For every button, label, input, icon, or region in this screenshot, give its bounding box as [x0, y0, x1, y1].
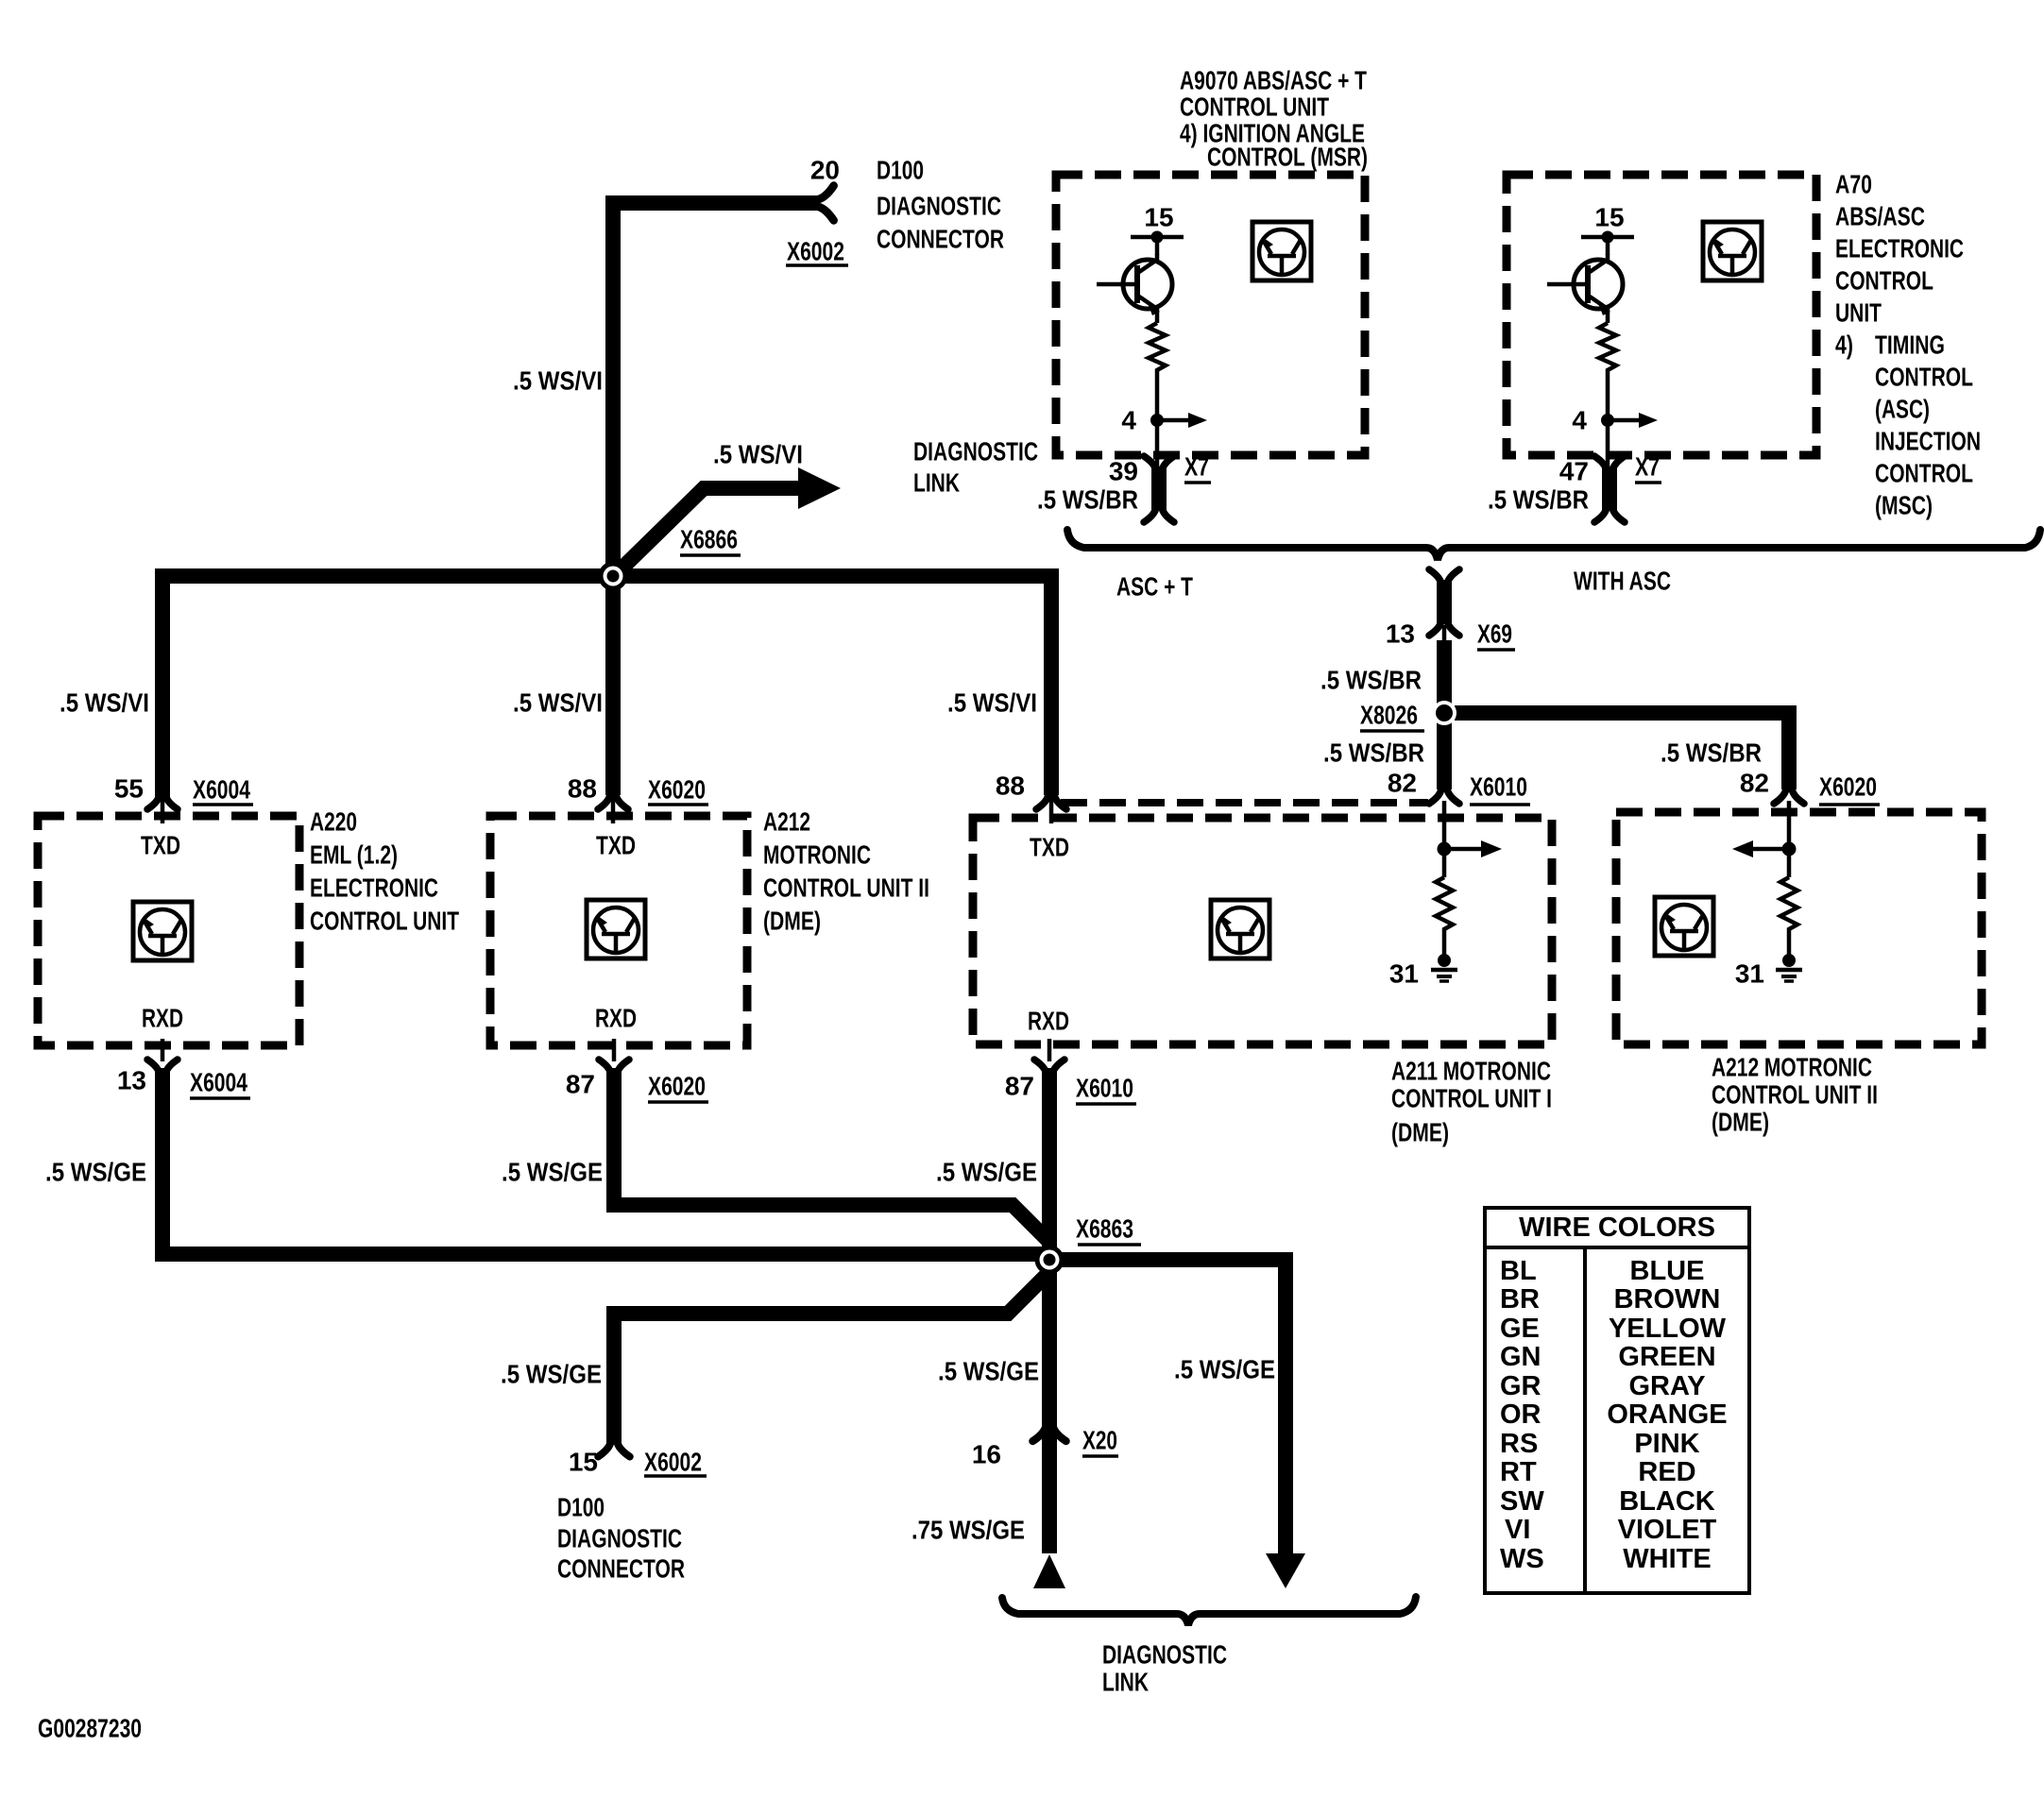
svg-text:VI: VI: [1505, 1515, 1530, 1545]
svg-text:15: 15: [1594, 203, 1624, 232]
svg-text:(ASC): (ASC): [1875, 395, 1930, 424]
svg-text:16: 16: [972, 1440, 1001, 1469]
svg-text:CONTROL UNIT II: CONTROL UNIT II: [763, 874, 929, 903]
svg-text:D100: D100: [877, 156, 924, 185]
svg-text:WIRE COLORS: WIRE COLORS: [1519, 1213, 1715, 1243]
svg-text:X6866: X6866: [680, 525, 738, 554]
svg-text:CONTROL: CONTROL: [1835, 266, 1933, 296]
svg-text:.5 WS/BR: .5 WS/BR: [1323, 738, 1424, 768]
svg-text:DIAGNOSTIC: DIAGNOSTIC: [913, 437, 1038, 466]
svg-text:X6020: X6020: [648, 1072, 706, 1101]
svg-text:CONTROL UNIT: CONTROL UNIT: [310, 907, 459, 936]
svg-text:CONNECTOR: CONNECTOR: [877, 225, 1004, 254]
svg-text:BR: BR: [1500, 1284, 1540, 1315]
svg-text:88: 88: [996, 772, 1025, 801]
svg-text:DIAGNOSTIC: DIAGNOSTIC: [1102, 1640, 1227, 1670]
svg-text:ABS/ASC: ABS/ASC: [1835, 202, 1925, 231]
svg-text:X6010: X6010: [1076, 1074, 1133, 1103]
svg-text:GE: GE: [1500, 1314, 1540, 1344]
svg-text:X6002: X6002: [644, 1448, 702, 1477]
svg-text:.75 WS/GE: .75 WS/GE: [911, 1516, 1025, 1545]
svg-text:WHITE: WHITE: [1623, 1544, 1711, 1574]
svg-text:D100: D100: [557, 1493, 605, 1522]
svg-text:X6010: X6010: [1470, 772, 1527, 802]
svg-text:DIAGNOSTIC: DIAGNOSTIC: [557, 1524, 682, 1553]
svg-text:BLACK: BLACK: [1619, 1486, 1715, 1517]
svg-text:EML (1.2): EML (1.2): [310, 840, 398, 870]
svg-text:.5 WS/GE: .5 WS/GE: [1174, 1355, 1275, 1384]
svg-text:GN: GN: [1500, 1342, 1542, 1372]
svg-text:X7: X7: [1635, 452, 1660, 482]
svg-text:RT: RT: [1500, 1457, 1537, 1487]
svg-text:.5 WS/VI: .5 WS/VI: [713, 440, 803, 469]
svg-text:GRAY: GRAY: [1628, 1371, 1705, 1401]
svg-text:CONTROL UNIT I: CONTROL UNIT I: [1391, 1084, 1552, 1113]
svg-text:.5 WS/GE: .5 WS/GE: [936, 1158, 1037, 1187]
svg-text:RED: RED: [1638, 1457, 1695, 1487]
svg-text:X6004: X6004: [193, 775, 250, 805]
svg-text:WITH ASC: WITH ASC: [1574, 567, 1671, 596]
svg-text:LINK: LINK: [1102, 1668, 1149, 1697]
svg-text:ORANGE: ORANGE: [1607, 1399, 1727, 1430]
svg-text:.5 WS/BR: .5 WS/BR: [1661, 738, 1762, 768]
svg-text:A70: A70: [1835, 170, 1872, 199]
svg-text:A212: A212: [763, 807, 810, 837]
svg-text:A220: A220: [310, 807, 357, 837]
svg-text:13: 13: [1386, 619, 1415, 649]
svg-text:MOTRONIC: MOTRONIC: [763, 840, 871, 870]
svg-text:ELECTRONIC: ELECTRONIC: [310, 874, 438, 903]
svg-text:RS: RS: [1500, 1429, 1538, 1459]
svg-text:.5 WS/VI: .5 WS/VI: [947, 688, 1037, 718]
svg-text:CONTROL UNIT: CONTROL UNIT: [1180, 93, 1329, 122]
svg-text:OR: OR: [1500, 1399, 1542, 1430]
svg-text:(DME): (DME): [1391, 1118, 1449, 1147]
svg-text:87: 87: [566, 1070, 595, 1099]
svg-text:4): 4): [1835, 331, 1853, 360]
svg-text:TIMING: TIMING: [1875, 331, 1945, 360]
svg-text:RXD: RXD: [595, 1004, 637, 1033]
svg-text:13: 13: [117, 1066, 146, 1095]
svg-text:X6002: X6002: [787, 237, 844, 266]
svg-text:TXD: TXD: [141, 831, 180, 860]
svg-text:31: 31: [1735, 959, 1764, 989]
svg-text:39: 39: [1109, 457, 1138, 486]
svg-text:G00287230: G00287230: [38, 1714, 142, 1743]
svg-text:CONTROL (MSR): CONTROL (MSR): [1207, 143, 1368, 172]
svg-text:X6004: X6004: [190, 1068, 247, 1097]
svg-text:CONNECTOR: CONNECTOR: [557, 1554, 685, 1584]
svg-text:BL: BL: [1500, 1256, 1537, 1286]
svg-text:LINK: LINK: [913, 468, 960, 498]
svg-text:88: 88: [568, 774, 597, 804]
svg-text:ELECTRONIC: ELECTRONIC: [1835, 234, 1964, 263]
svg-text:X8026: X8026: [1360, 701, 1418, 730]
svg-text:.5 WS/VI: .5 WS/VI: [513, 366, 603, 396]
svg-text:A212 MOTRONIC: A212 MOTRONIC: [1712, 1053, 1872, 1082]
svg-text:4: 4: [1121, 406, 1136, 435]
svg-text:TXD: TXD: [596, 831, 636, 860]
svg-text:.5 WS/VI: .5 WS/VI: [60, 688, 149, 718]
svg-text:31: 31: [1389, 959, 1419, 989]
svg-text:ASC + T: ASC + T: [1116, 572, 1193, 602]
svg-text:UNIT: UNIT: [1835, 298, 1882, 328]
svg-text:CONTROL: CONTROL: [1875, 363, 1973, 392]
svg-text:A9070 ABS/ASC + T: A9070 ABS/ASC + T: [1180, 66, 1367, 95]
svg-text:82: 82: [1388, 769, 1417, 798]
svg-text:GR: GR: [1500, 1371, 1542, 1401]
svg-text:VIOLET: VIOLET: [1618, 1515, 1717, 1545]
svg-text:.5 WS/GE: .5 WS/GE: [502, 1158, 603, 1187]
svg-text:TXD: TXD: [1030, 833, 1069, 862]
svg-text:X6020: X6020: [648, 775, 706, 805]
svg-text:SW: SW: [1500, 1486, 1544, 1517]
svg-text:WS: WS: [1500, 1544, 1544, 1574]
svg-text:82: 82: [1740, 769, 1769, 798]
svg-text:15: 15: [569, 1448, 598, 1477]
svg-text:INJECTION: INJECTION: [1875, 427, 1981, 456]
svg-text:X69: X69: [1477, 619, 1512, 649]
svg-text:(DME): (DME): [763, 907, 821, 936]
svg-text:CONTROL UNIT II: CONTROL UNIT II: [1712, 1080, 1878, 1110]
svg-text:.5 WS/GE: .5 WS/GE: [45, 1158, 146, 1187]
svg-text:15: 15: [1144, 203, 1173, 232]
svg-text:87: 87: [1005, 1072, 1034, 1101]
svg-text:.5 WS/BR: .5 WS/BR: [1488, 485, 1589, 515]
svg-text:X6863: X6863: [1076, 1214, 1133, 1244]
svg-text:.5 WS/GE: .5 WS/GE: [938, 1357, 1039, 1386]
svg-text:.5 WS/BR: .5 WS/BR: [1320, 666, 1422, 695]
svg-text:.5 WS/VI: .5 WS/VI: [513, 688, 603, 718]
svg-text:RXD: RXD: [142, 1004, 183, 1033]
svg-text:X6020: X6020: [1819, 772, 1877, 802]
svg-text:BROWN: BROWN: [1614, 1284, 1721, 1315]
svg-text:.5 WS/BR: .5 WS/BR: [1037, 485, 1138, 515]
svg-text:YELLOW: YELLOW: [1609, 1314, 1727, 1344]
svg-text:47: 47: [1559, 457, 1589, 486]
svg-text:20: 20: [810, 156, 840, 185]
svg-text:PINK: PINK: [1634, 1429, 1699, 1459]
svg-text:A211 MOTRONIC: A211 MOTRONIC: [1391, 1057, 1551, 1086]
svg-text:DIAGNOSTIC: DIAGNOSTIC: [877, 192, 1001, 221]
svg-text:X7: X7: [1184, 452, 1209, 482]
svg-text:.5 WS/GE: .5 WS/GE: [501, 1360, 602, 1389]
svg-text:X20: X20: [1082, 1426, 1117, 1455]
svg-text:(DME): (DME): [1712, 1108, 1769, 1137]
svg-text:BLUE: BLUE: [1630, 1256, 1705, 1286]
svg-text:RXD: RXD: [1028, 1007, 1069, 1036]
svg-text:4: 4: [1572, 406, 1587, 435]
svg-text:CONTROL: CONTROL: [1875, 459, 1973, 488]
svg-text:55: 55: [114, 774, 144, 804]
svg-text:(MSC): (MSC): [1875, 491, 1933, 520]
svg-text:GREEN: GREEN: [1618, 1342, 1715, 1372]
